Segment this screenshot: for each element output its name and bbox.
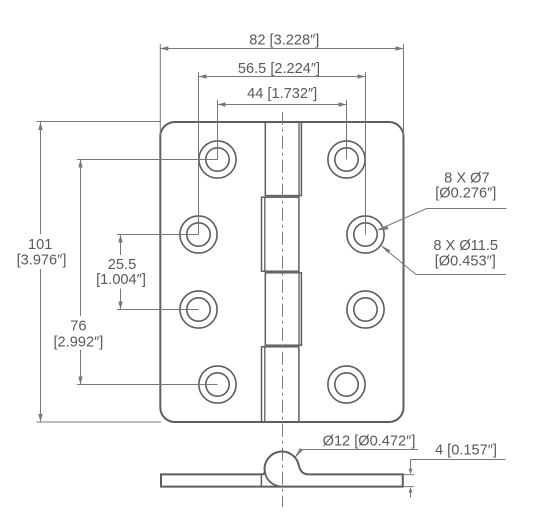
knuckle 4 seam line <box>264 347 266 422</box>
svg-text:4 [0.157″]: 4 [0.157″] <box>435 442 497 458</box>
hole row4 right <box>328 366 365 403</box>
svg-text:Ø12 [Ø0.472″]: Ø12 [Ø0.472″] <box>323 433 416 449</box>
leader D12 <box>295 450 418 458</box>
dimension 25.5 arrows <box>118 235 122 310</box>
knuckle segment 4 <box>262 347 299 422</box>
hole row1 right <box>328 141 365 178</box>
knuckle segment 2 <box>262 197 299 271</box>
dimension 76 arrows <box>78 160 82 385</box>
bottom view left leaf end edge <box>260 474 262 486</box>
hole row3 right <box>347 291 384 328</box>
leader D12 arrow <box>295 448 303 458</box>
hinge leaf outline (front view) <box>160 122 403 422</box>
hole row2 left <box>180 216 217 253</box>
dimension 4 bottom right <box>403 460 506 498</box>
dimension 82 top <box>160 44 403 136</box>
svg-text:[2.992″]: [2.992″] <box>54 335 104 351</box>
knuckle 2 seam line <box>264 197 266 271</box>
dimension 44 <box>218 100 347 160</box>
svg-text:44 [1.732″]: 44 [1.732″] <box>247 86 317 102</box>
leader 8xD11.5 <box>382 246 506 274</box>
bottom view barrel lower-left arc <box>265 472 282 487</box>
dimension 56.5 arrows <box>199 74 366 78</box>
svg-text:76: 76 <box>70 318 86 334</box>
dimension 82 arrows <box>160 46 403 50</box>
svg-text:[Ø0.276″]: [Ø0.276″] <box>435 185 496 201</box>
dimension 101 arrows <box>38 122 42 422</box>
hole row2 right <box>347 216 384 253</box>
dimension 44 arrows <box>218 102 347 106</box>
knuckle 3 seam line <box>298 273 300 345</box>
dimension 76 left <box>77 160 218 385</box>
bottom view hinge profile outline <box>161 452 403 487</box>
leader 8xD7 <box>379 209 507 230</box>
dimension 4 arrows <box>409 469 413 493</box>
svg-text:25.5: 25.5 <box>108 257 136 273</box>
hole row4 left <box>199 366 236 403</box>
leader 8xD7 arrow <box>377 226 389 230</box>
svg-text:8 X Ø7: 8 X Ø7 <box>444 170 489 186</box>
svg-text:56.5 [2.224″]: 56.5 [2.224″] <box>238 61 320 77</box>
hole row3 left <box>180 291 217 328</box>
svg-text:101: 101 <box>28 237 52 253</box>
dimension 56.5 <box>199 72 366 235</box>
hole row1 left <box>199 141 236 178</box>
svg-text:[3.976″]: [3.976″] <box>17 253 67 269</box>
svg-text:82 [3.228″]: 82 [3.228″] <box>249 33 319 49</box>
knuckle 1 seam line <box>298 122 300 195</box>
svg-text:8 X Ø11.5: 8 X Ø11.5 <box>433 238 498 254</box>
dimension 101 left <box>37 122 162 423</box>
center line of pin <box>282 112 284 507</box>
dimension 25.5 left <box>117 235 199 310</box>
svg-text:[Ø0.453″]: [Ø0.453″] <box>435 254 496 270</box>
knuckle segment 3 <box>265 273 301 345</box>
knuckle segment 1 <box>265 122 301 195</box>
svg-text:[1.004″]: [1.004″] <box>96 272 146 288</box>
leader 8xD11.5 arrow <box>380 245 390 253</box>
